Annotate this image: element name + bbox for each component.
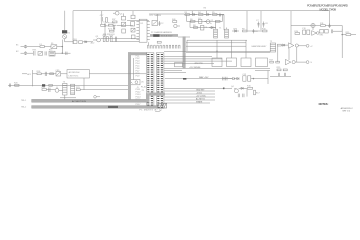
wire [65,41,73,43]
svg-text:RAW +24V: RAW +24V [199,76,209,79]
capacitor C14 [243,94,244,98]
wire [64,11,66,31]
wire stub [312,28,314,30]
svg-text:C27: C27 [100,15,103,17]
capacitor C21 [331,29,332,33]
svg-text:R36: R36 [106,25,109,27]
enclosure mid vertical edge [290,11,292,44]
wire [59,89,63,91]
svg-text:GND RET: GND RET [196,89,205,91]
wire [217,14,224,16]
wire [89,73,146,75]
wire [245,40,247,58]
transistor Q6 [295,44,298,47]
wire [222,15,224,22]
wire [270,75,291,77]
regulator VR2 box [325,29,329,33]
resistor R23 [76,87,81,91]
wire [133,58,135,80]
svg-text:HEATSINK ASSY: HEATSINK ASSY [252,45,268,48]
wire [184,14,224,16]
wire stub [260,11,262,30]
wire [164,99,215,101]
svg-text:R40: R40 [172,19,175,21]
transformer T3 primary [63,83,67,95]
wire [341,29,343,58]
svg-text:BUS A 320V: BUS A 320V [161,35,173,38]
wire [187,39,247,41]
wire [351,34,356,36]
mid box B1 [212,58,222,67]
resistor R36 [101,24,110,27]
svg-text:RT1 THERM: RT1 THERM [150,15,162,17]
wire [164,60,232,62]
fuse F1 [40,44,45,48]
connector bottom pointer [155,110,161,111]
wire stub [101,11,103,17]
transformer T1 primary [214,29,218,38]
wire [101,38,140,40]
inductor L1 [223,77,233,81]
resistor R15 [157,41,161,43]
resistor R12 [103,35,108,42]
wire [80,89,128,91]
wire [255,70,270,72]
resistor R1 [108,23,116,27]
capacitor C13 [248,76,251,81]
svg-text:SPARE: SPARE [196,100,203,103]
wire stub [132,11,134,16]
capacitor C1 [103,22,106,29]
wire [164,87,224,89]
wire [325,25,342,27]
resistor R7 [216,20,223,22]
enclosure box top edge [73,10,330,12]
input terminal E2 [16,51,27,54]
wire [215,21,217,29]
capacitor C16 [45,72,46,76]
bus bar lower [32,106,158,109]
svg-text:TB1-1: TB1-1 [21,100,26,102]
wire [164,56,212,58]
svg-text:AC NEUT BUS: AC NEUT BUS [72,100,87,103]
resistor R22 [41,87,46,90]
resistor R3 [185,12,190,15]
transistor Q4 [231,86,238,93]
resistor R40 [172,19,177,23]
capacitor C17 [9,84,10,88]
diode bridge CR9 [55,70,60,76]
enclosure box right edge [329,11,331,25]
pin label column [136,55,146,108]
wire [62,52,70,54]
svg-text:AC RET B: AC RET B [196,97,205,100]
wire [112,41,140,43]
transformer T2 [270,41,276,52]
wire [117,25,133,27]
wire [164,62,214,64]
capacitor C10 [45,51,46,55]
wire [288,48,290,60]
transformer T1 secondary [219,28,228,38]
wire [64,95,66,99]
output terminal E4 [306,61,312,64]
resistor R5 [212,12,217,15]
node junction [216,51,217,52]
node junction [342,34,343,35]
wire [277,46,279,62]
relay K1 contact [63,33,71,39]
node junction [62,46,63,47]
wire [295,61,306,63]
svg-text:AC1: AC1 [27,73,31,76]
wire [246,89,248,96]
resistor R2 [108,28,116,32]
wire stub [223,15,225,31]
diode CR3 [209,26,216,28]
transistor Q3 [93,36,101,42]
wire [41,73,56,75]
wire [27,46,40,48]
diode CR8 [239,87,247,89]
wire [267,71,269,85]
resistor R20 [14,83,19,87]
wire tick dark [183,78,186,80]
wire [186,40,188,51]
wire stub [246,11,248,30]
wire [164,96,215,98]
resistor R11 [320,23,325,26]
module A1 box [67,70,89,78]
diode CR7 [237,77,239,79]
resistor R34 [131,35,135,39]
wire [164,72,186,74]
wire stub [206,11,208,14]
diode CR13 [131,28,135,32]
wire [33,73,38,75]
net label stub [22,73,31,76]
bus top run [149,93,165,96]
capacitor C18 [49,88,50,92]
svg-text:SHT 1/2: SHT 1/2 [342,110,350,112]
svg-text:APG43205-2: APG43205-2 [341,107,354,110]
resistor R25 [346,32,351,36]
capacitor C15 [238,94,239,98]
wire [27,52,33,54]
svg-text:P1: P1 [142,90,144,92]
wire [104,28,106,37]
capacitor C20 [307,30,310,34]
capacitor C5 [201,25,208,30]
capacitor C4 [198,18,202,24]
thermistor RT1 [152,21,158,26]
capacitor C2 [158,21,164,26]
resistor R6 [190,19,195,22]
bus bar lower label blob [108,106,118,108]
capacitor C9 [328,24,330,29]
wire [341,26,343,32]
thick bus elbow box [175,63,183,67]
output terminal E3 [306,44,313,47]
wire [187,20,223,22]
capacitor C22 [278,73,279,76]
svg-text:LIMIT NTC: LIMIT NTC [69,75,79,77]
transistor Q1 [113,11,123,15]
diode CR4 [232,28,239,32]
resistor R24 [294,31,299,35]
terminal post stroke E1 [25,45,27,48]
op-amp U4 [285,59,290,64]
wire [226,28,228,30]
thick bus trace vertical right [183,36,186,68]
transistor Q8 [174,24,180,27]
wire [186,15,188,22]
wire [83,78,85,90]
wire [89,41,93,43]
thick bus connector stub [128,52,147,55]
resistor R19 [50,73,54,75]
resistor R26 [277,44,281,46]
wire [64,39,66,42]
wire [149,13,184,15]
mid box B2 [227,58,237,67]
terminal E6 [94,96,100,99]
capacitor C6 [252,29,258,33]
hatched filter block FL2 [158,103,167,108]
op-amp U3 [288,43,293,48]
transistor Q5 [55,87,59,93]
fuse F2 [38,52,43,56]
capacitor C27 [100,15,103,21]
wire [251,78,268,80]
resistor R28 [276,61,280,63]
wire [157,14,159,21]
resistor R8 [193,25,198,28]
wire [333,30,342,32]
regulator VR1 box [319,29,324,36]
transistor Q7 [292,61,295,64]
wire [164,90,215,92]
resistor R35 [106,18,108,23]
resistor R16 [247,86,253,90]
diode CR6 [233,77,238,79]
bus bar upper [32,99,149,102]
opto isolator U5 box [128,80,144,85]
svg-text:P2 CHASSIS HARNESS: P2 CHASSIS HARNESS [151,31,173,34]
capacitor C19 [302,28,307,34]
resistor R21 [49,84,53,86]
wire [186,42,246,44]
breaker CB1 [73,39,78,44]
wire [186,45,246,47]
resistor R4 [198,12,203,15]
resistor R30 [283,69,287,71]
IC U1 regulator [139,19,147,42]
resistor R37 [112,19,117,23]
svg-text:J1: J1 [137,87,139,89]
wire [164,69,182,71]
resistor R14 [110,35,115,42]
relay K1 coil [62,30,67,33]
connector J1 body outline [146,53,154,108]
node junction [253,78,254,79]
thick bus trace horizontal upper [150,34,178,37]
capacitor C23 [284,73,285,76]
wire [190,27,216,29]
resistor R13 [106,37,108,42]
transistor Q2 [205,20,215,24]
capacitor C7 [256,20,260,28]
resistor R17 [254,90,261,95]
diode CR10 [42,84,45,86]
svg-text:TB1-2: TB1-2 [21,106,26,108]
diode CR1 [190,13,197,16]
bus riser elbow [146,93,149,102]
thermal switch S2 [79,41,83,44]
mid box B3 [241,58,251,67]
resistor R27 [269,59,274,63]
svg-text:+5V LOGIC: +5V LOGIC [196,95,206,97]
svg-text:P1-10: P1-10 [141,86,146,88]
svg-text:P1-9: P1-9 [136,75,140,77]
wire [178,36,190,38]
wire [164,58,222,60]
svg-text:AC2: AC2 [91,42,95,45]
wire [296,47,298,62]
wire [127,20,149,22]
wire [164,50,270,52]
capacitor C12 [242,74,247,81]
wire [61,73,67,75]
wire [55,52,62,54]
switch S1 [51,43,57,48]
resistor R29 [277,67,282,71]
resistor R38 [121,16,125,20]
header pin row top [148,45,181,48]
wire [60,97,76,99]
wire [164,93,215,95]
transformer T3 secondary [71,84,75,94]
connector J1 pin stack [147,54,153,108]
op-amp U2 [312,31,320,36]
wire [225,87,232,89]
wire [61,47,63,54]
wire [164,68,270,70]
wire [57,46,63,48]
wire [8,84,128,86]
input terminal E1 [16,45,27,48]
wire stub [148,42,150,45]
mid box B4 [256,58,268,67]
diode CR5 [83,41,89,43]
wire [101,21,103,24]
connector J4 circle [311,23,315,27]
wire [32,70,34,86]
wire [189,21,191,27]
wire [44,46,51,48]
capacitor C11 [115,37,116,42]
wire [231,40,233,58]
diode CR14 [121,22,125,26]
resistor R39 [122,29,126,33]
wire [315,25,320,27]
bus label blob [153,34,159,37]
U1 left pins [136,21,139,39]
wire [298,45,306,47]
wire [164,102,210,104]
capacitor C26 [131,15,135,18]
wire stub [191,11,193,14]
wire [216,40,218,58]
resistor R9 [242,28,247,32]
svg-text:-15V A: -15V A [196,91,202,94]
wire [46,89,55,91]
connector J2 pin stack [157,54,163,108]
wire [123,13,125,16]
enclosure box left edge [72,11,74,44]
wire [186,51,270,53]
wire [247,30,262,32]
capacitor C25 [66,52,67,55]
terminal post stroke E2 [25,52,27,55]
capacitor C3 [219,13,225,17]
capacitor C28 [114,26,115,30]
varistor RV1 [33,49,38,55]
resistor R18 [37,71,42,75]
thick bus trace horizontal mid [128,52,131,101]
svg-text:P1 MATES W/ J1: P1 MATES W/ J1 [140,108,162,111]
line filter FL1 [49,50,55,56]
U1 right pins [147,21,150,39]
svg-text:A1 INRUSH: A1 INRUSH [69,71,80,74]
svg-text:R37: R37 [112,19,115,21]
connector J2 body outline [156,53,164,108]
wire [165,78,232,80]
diode CR12 [281,44,288,46]
resistor R33 [131,22,135,26]
resistor R10 [262,28,267,32]
wire [61,40,63,54]
wire [291,25,311,27]
node junction [62,53,63,54]
node junction [223,88,225,90]
svg-text:NOTES:: NOTES: [319,102,329,106]
capacitor C8 [262,22,268,28]
wire [342,34,346,36]
diode CR2 [204,13,211,16]
